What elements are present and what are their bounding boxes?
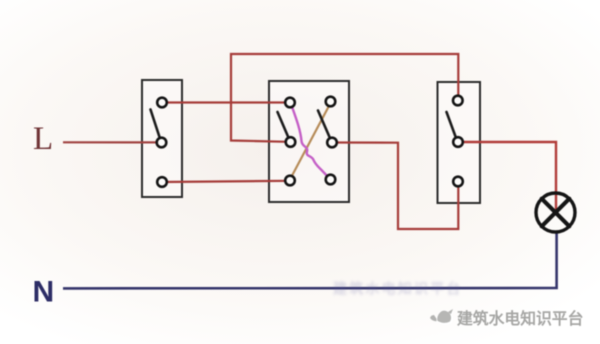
switch S2 right lever	[318, 111, 330, 138]
switch S3 top terminal	[453, 96, 463, 106]
svg-text:L: L	[33, 121, 53, 157]
wire S1 bottom terminal to S2 terminal 5	[162, 181, 290, 182]
svg-text:建筑水电知识平台: 建筑水电知识平台	[457, 309, 583, 328]
switch S2 body	[269, 81, 349, 202]
switch S2 terminal 1	[285, 98, 295, 108]
switch S1 common terminal	[157, 138, 167, 148]
svg-text:建筑水电知识平台: 建筑水电知识平台	[333, 281, 463, 297]
wire S1 top terminal to S2 terminal 1	[162, 101, 290, 103]
wire S2 terminal 3 over-the-top loop to S3 top terminal	[231, 54, 458, 142]
lamp X1 cross stroke 1	[542, 199, 570, 227]
switch S3 body	[438, 82, 481, 203]
switch S1 bottom terminal	[157, 177, 167, 187]
switch S2 terminal 5	[285, 176, 295, 186]
lamp X1 circle	[536, 193, 575, 232]
wire neutral N line	[63, 231, 557, 288]
svg-text:N: N	[33, 276, 55, 309]
lamp X1 cross stroke 2	[542, 199, 570, 227]
switch S2 terminal 6	[326, 175, 336, 185]
wire S2 terminal 4 jog under S3 to S3 bottom terminal	[334, 143, 458, 230]
wire S3 common to lamp	[461, 142, 556, 213]
switch S1 top terminal	[157, 98, 167, 108]
switch S2 crossover strap purple (terminal 1 to terminal 6)	[291, 104, 330, 179]
switch S3 bottom terminal	[453, 177, 463, 187]
switch S2 terminal 4	[327, 138, 337, 148]
switch S3 lever	[447, 112, 456, 137]
switch S1 lever	[151, 110, 160, 138]
watermark logo swan	[430, 309, 453, 323]
switch S2 left lever	[278, 112, 289, 137]
switch S2 crossover strap tan (terminal 5 to terminal 2)	[291, 104, 331, 179]
switch S2 terminal 2	[326, 97, 336, 107]
switch S3 common terminal	[453, 137, 463, 147]
wire L feed to switch S1 common	[63, 141, 159, 143]
switch S2 terminal 3	[286, 137, 296, 147]
switch S1 body	[142, 80, 182, 197]
